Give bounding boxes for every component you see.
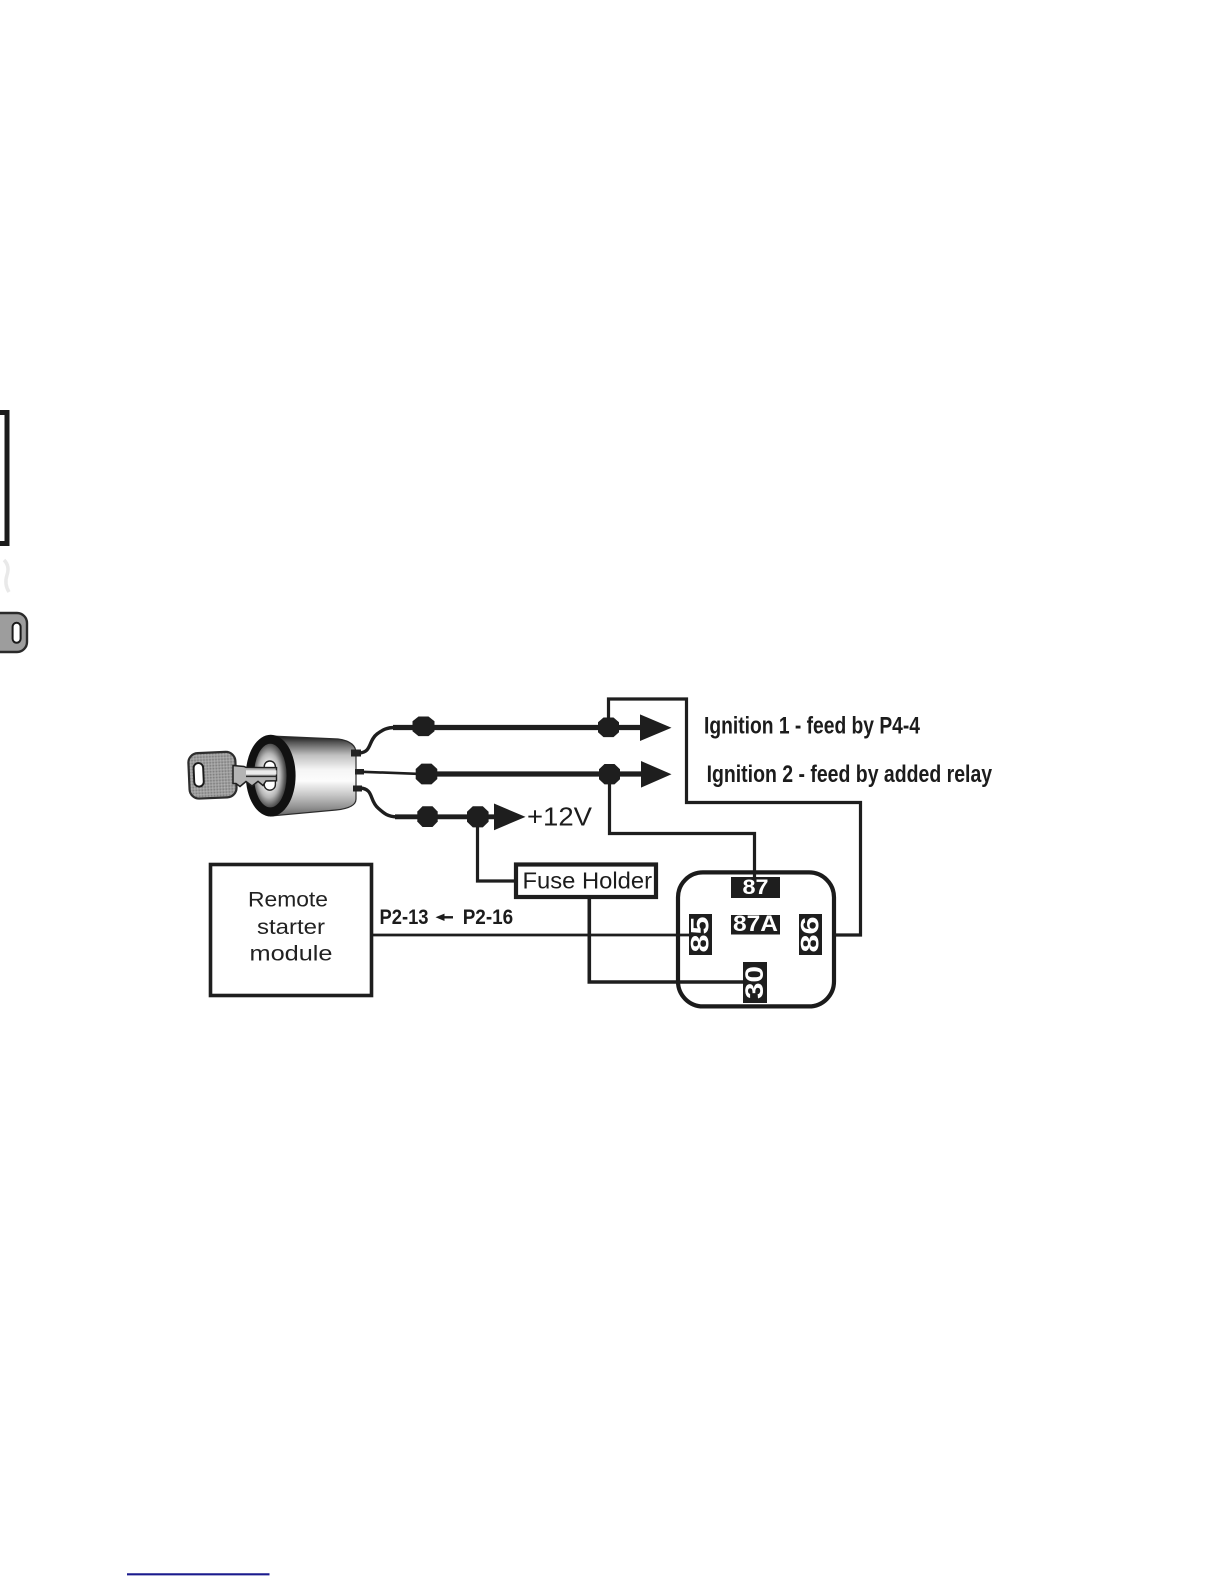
svg-text:P2-16: P2-16 bbox=[463, 906, 514, 929]
key shaft bbox=[233, 766, 277, 787]
net: +12V tap to fuse holder bbox=[478, 817, 515, 881]
junction dot +12V tap bbox=[467, 806, 489, 827]
relay pin 86 bbox=[799, 914, 822, 955]
relay pin 85 bbox=[689, 914, 712, 955]
splice dot bbox=[599, 764, 620, 784]
terminal stub middle bbox=[355, 769, 364, 775]
remote starter module box bbox=[211, 865, 372, 996]
ignition key head bbox=[188, 751, 237, 799]
svg-text:Ignition 2 - feed by added rel: Ignition 2 - feed by added relay bbox=[707, 761, 993, 788]
relay body bbox=[678, 872, 834, 1006]
arrow ignition1 bbox=[640, 714, 672, 741]
terminal stub bottom bbox=[353, 786, 362, 792]
svg-text:Ignition 1 - feed by P4-4: Ignition 1 - feed by P4-4 bbox=[704, 712, 920, 739]
svg-text:86: 86 bbox=[797, 917, 825, 953]
relay pin 87A bbox=[731, 915, 780, 935]
cylinder face ring bbox=[246, 735, 296, 817]
faint mark at left margin bbox=[4, 560, 9, 592]
svg-text:P2-13: P2-13 bbox=[380, 906, 429, 929]
net: module to relay 85 bbox=[373, 934, 689, 937]
svg-text:87A: 87A bbox=[733, 911, 778, 936]
net: ign2 to relay 87 bbox=[610, 774, 755, 878]
svg-text:+12V: +12V bbox=[527, 802, 593, 832]
svg-text:starter: starter bbox=[257, 915, 325, 939]
blue rule at page bottom bbox=[127, 1573, 270, 1575]
svg-text:Remote: Remote bbox=[248, 888, 328, 912]
wire: ignition1 main run bbox=[393, 725, 642, 730]
svg-text:module: module bbox=[250, 942, 333, 966]
terminal stub top bbox=[351, 750, 361, 757]
splice dot bbox=[417, 806, 437, 827]
wire: +12V run bbox=[395, 814, 496, 819]
wire: ignition1 curve from cylinder bbox=[359, 728, 395, 754]
net: ign1 to relay 86 bbox=[609, 699, 861, 935]
arrow ignition2 bbox=[641, 761, 672, 788]
wire: ignition2 main run bbox=[420, 771, 642, 776]
fuse holder box bbox=[516, 865, 656, 898]
keyhole bbox=[264, 761, 275, 790]
arrow small left bbox=[436, 914, 454, 921]
arrow +12V bbox=[494, 804, 526, 831]
svg-text:30: 30 bbox=[741, 966, 769, 999]
svg-text:Fuse Holder: Fuse Holder bbox=[523, 868, 653, 894]
ignition cylinder body bbox=[270, 736, 356, 816]
splice dot bbox=[598, 718, 619, 738]
wire: ignition2 from cylinder bbox=[362, 772, 420, 774]
splice dot bbox=[413, 717, 435, 737]
gray key-tag icon at left margin bbox=[0, 613, 27, 652]
relay pin 30 bbox=[743, 962, 767, 1003]
wire: +12V curve from cylinder bbox=[360, 788, 397, 817]
svg-text:85: 85 bbox=[687, 916, 715, 952]
partial black box at left margin bbox=[0, 413, 7, 544]
relay pin 87 bbox=[731, 877, 780, 898]
splice dot bbox=[416, 764, 438, 785]
svg-text:87: 87 bbox=[743, 875, 769, 899]
net: fuse holder to relay 30 bbox=[589, 899, 743, 982]
